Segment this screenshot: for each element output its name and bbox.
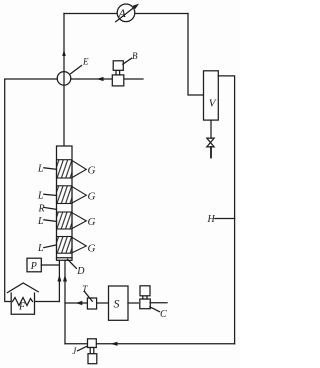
wire top right down to vessel [188,14,204,96]
cone G1 [72,161,86,178]
packing band 4 [57,237,73,254]
svg-text:G: G [88,216,96,228]
wire vessel bottom drain [210,120,212,138]
packing band 2 [57,186,73,204]
svg-text:S: S [114,297,120,311]
leader H [215,218,235,220]
valve T [87,298,96,309]
svg-text:D: D [76,266,85,277]
gauge P [27,258,41,272]
svg-text:L: L [37,216,44,227]
wire riser E to top [63,14,65,147]
svg-text:E: E [82,57,89,67]
packing band 3 [57,212,73,229]
leader R [45,208,57,210]
valve J [88,339,97,364]
wire heater to downcomer [35,301,59,303]
packing band 1 [57,160,73,178]
wire arrow up on riser [62,50,66,57]
svg-text:F: F [18,302,26,313]
wire E to left edge and down [5,79,58,302]
leader T handle [84,291,92,301]
wire arrow left on bottom line [111,342,118,346]
svg-text:R: R [38,204,45,215]
valve B [112,61,124,86]
svg-text:B: B [132,51,138,61]
wire right downcomer [64,260,66,344]
unit S [109,286,129,320]
svg-text:J: J [72,346,77,356]
cone G2 [72,187,86,203]
column bottom closure line [57,257,73,259]
column R shell [57,146,73,260]
svg-text:L: L [37,164,44,175]
leader J [78,347,87,351]
wire left downcomer [58,260,60,301]
leader E [71,66,82,74]
wire bottom return line [65,343,235,345]
flow meter A [116,4,139,22]
leader B [123,58,132,64]
svg-text:L: L [37,190,44,201]
wire P to downcomer [41,264,59,266]
leader D [68,259,77,268]
svg-text:H: H [207,214,216,225]
cone G4 [72,237,86,253]
leader L3 [44,220,57,222]
svg-text:L: L [37,243,44,254]
wire arrow left on B stub [97,77,104,81]
leader C [150,307,160,312]
wire feed stub C [150,302,167,304]
svg-text:T: T [82,284,88,294]
wire arrow up left downcomer [57,275,61,282]
wire overhead top horizontal [64,13,188,15]
vessel V [204,71,219,120]
heater F house [8,283,39,314]
wire arrow left on branch [75,301,82,305]
valve C [140,286,151,309]
wire arrow up right downcomer [63,275,67,282]
wire B stub into junction E [71,78,143,80]
wire reboil branch to S [65,302,109,304]
svg-text:G: G [88,165,96,177]
svg-text:A: A [118,6,127,20]
leader L2 [44,194,57,195]
svg-text:C: C [160,309,167,320]
svg-text:P: P [30,261,37,272]
wire S to C [128,302,138,304]
junction E [57,72,71,86]
leader L1 [44,168,57,170]
wire vessel top outlet to right riser [218,76,234,344]
leader L4 [44,245,57,248]
drain valve bowtie [207,138,214,147]
svg-text:G: G [88,243,96,255]
cone G3 [72,213,86,229]
svg-text:G: G [88,191,96,203]
